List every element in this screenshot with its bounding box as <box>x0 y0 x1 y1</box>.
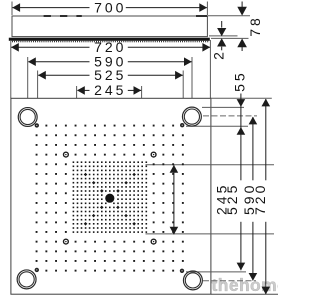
corner marker nozzle <box>35 123 39 127</box>
square bottom edge extension to right <box>211 293 278 295</box>
720 vertical bottom arrow <box>262 287 271 295</box>
dim 78 lower arrow <box>237 39 247 48</box>
245 vertical top arrow <box>170 165 179 173</box>
special nozzle marker <box>151 239 156 244</box>
special nozzle marker <box>64 152 69 157</box>
245 right extension line <box>141 86 143 168</box>
dim 2 lower arrow <box>217 38 226 46</box>
245 left extension line <box>76 86 78 167</box>
700 right extension line <box>206 2 208 16</box>
720 right extension line <box>209 40 211 98</box>
spray nozzles comb teeth under strip <box>11 41 14 43</box>
590 right arrow <box>184 57 192 66</box>
dim 2 upper arrow <box>217 28 226 36</box>
dimension 55 (hole offset) and 525 vertical shared line <box>240 94 242 181</box>
590 vertical top arrow <box>249 117 258 125</box>
dim 78 upper arrow <box>237 7 247 16</box>
plan view: square plate 720x720 <box>11 98 211 294</box>
mounting hole circle bottom-left <box>17 270 36 289</box>
590 right extension line <box>191 57 193 108</box>
590 vertical bottom arrow <box>249 273 258 281</box>
svg-text:2: 2 <box>210 49 226 60</box>
525 right arrow <box>175 71 183 80</box>
special nozzle marker <box>64 239 69 244</box>
dimension 2 (gap) <box>221 21 223 28</box>
svg-text:55: 55 <box>232 70 248 92</box>
720 left arrow <box>11 43 19 52</box>
nozzle field bottom extension <box>146 233 275 235</box>
side view: shower head body rectangle 700 wide <box>12 16 207 37</box>
dense nozzle dot grid <box>73 161 75 163</box>
590 left arrow <box>28 57 36 66</box>
525 vertical bottom arrow <box>237 263 246 271</box>
svg-text:720: 720 <box>252 183 268 215</box>
central large nozzle dot <box>105 194 114 203</box>
700 left extension line <box>11 2 13 16</box>
extension line body bottom (for dim 2) <box>209 35 238 37</box>
svg-text:thehome: thehome <box>212 275 279 295</box>
dim 55 arrow <box>237 99 246 107</box>
dimension 720 vertical (overall plate height) <box>265 99 267 180</box>
245 vertical bottom arrow <box>170 227 179 235</box>
700 right arrow <box>199 3 207 12</box>
extension line spray plate bottom (for dims 2 and 78) <box>211 37 249 39</box>
corner marker nozzle <box>180 269 184 273</box>
svg-text:700: 700 <box>94 0 126 15</box>
mounting hole circle top-left <box>18 108 37 127</box>
525 vertical top arrow <box>237 127 246 135</box>
extension line body top to right <box>208 15 250 17</box>
700 left arrow <box>12 3 20 12</box>
corner marker nozzle <box>180 123 184 127</box>
square top edge extension to right <box>211 97 272 99</box>
bottom-right hole centerline (dashed) <box>203 280 256 282</box>
svg-text:525: 525 <box>94 67 126 83</box>
dimension 590 vertical (mounting hole spacing) <box>252 117 254 180</box>
525 right extension line <box>182 71 184 123</box>
top-right hole centerline (dashed) <box>203 115 257 117</box>
mounting dashes on top edge of body <box>44 15 51 17</box>
marker row top extension <box>186 125 248 127</box>
svg-text:245: 245 <box>94 82 126 98</box>
245 right arrow <box>134 86 142 95</box>
dimension 78 (plate thickness) <box>241 2 243 8</box>
mounting hole circle bottom-right <box>183 271 202 290</box>
590 left extension line <box>27 57 29 108</box>
circle top tangent extension <box>202 106 244 108</box>
marker row bottom extension <box>186 271 246 273</box>
525 left arrow <box>38 71 46 80</box>
720 right arrow <box>202 43 210 52</box>
nozzle field top extension <box>146 164 275 166</box>
720 left extension line <box>10 40 12 98</box>
special nozzle marker <box>151 152 156 157</box>
sparse nozzle dot grid <box>36 134 38 136</box>
720 vertical top arrow <box>262 99 271 107</box>
spray plate strip (720 wide, dark) <box>9 38 210 41</box>
245 left arrow <box>77 86 85 95</box>
svg-text:525: 525 <box>224 183 240 215</box>
corner marker nozzle <box>35 268 39 272</box>
dimension 245 vertical (inner nozzle field) <box>173 165 175 234</box>
mounting hole circle top-right <box>182 107 201 126</box>
525 left extension line <box>37 71 39 123</box>
svg-text:78: 78 <box>247 15 263 37</box>
